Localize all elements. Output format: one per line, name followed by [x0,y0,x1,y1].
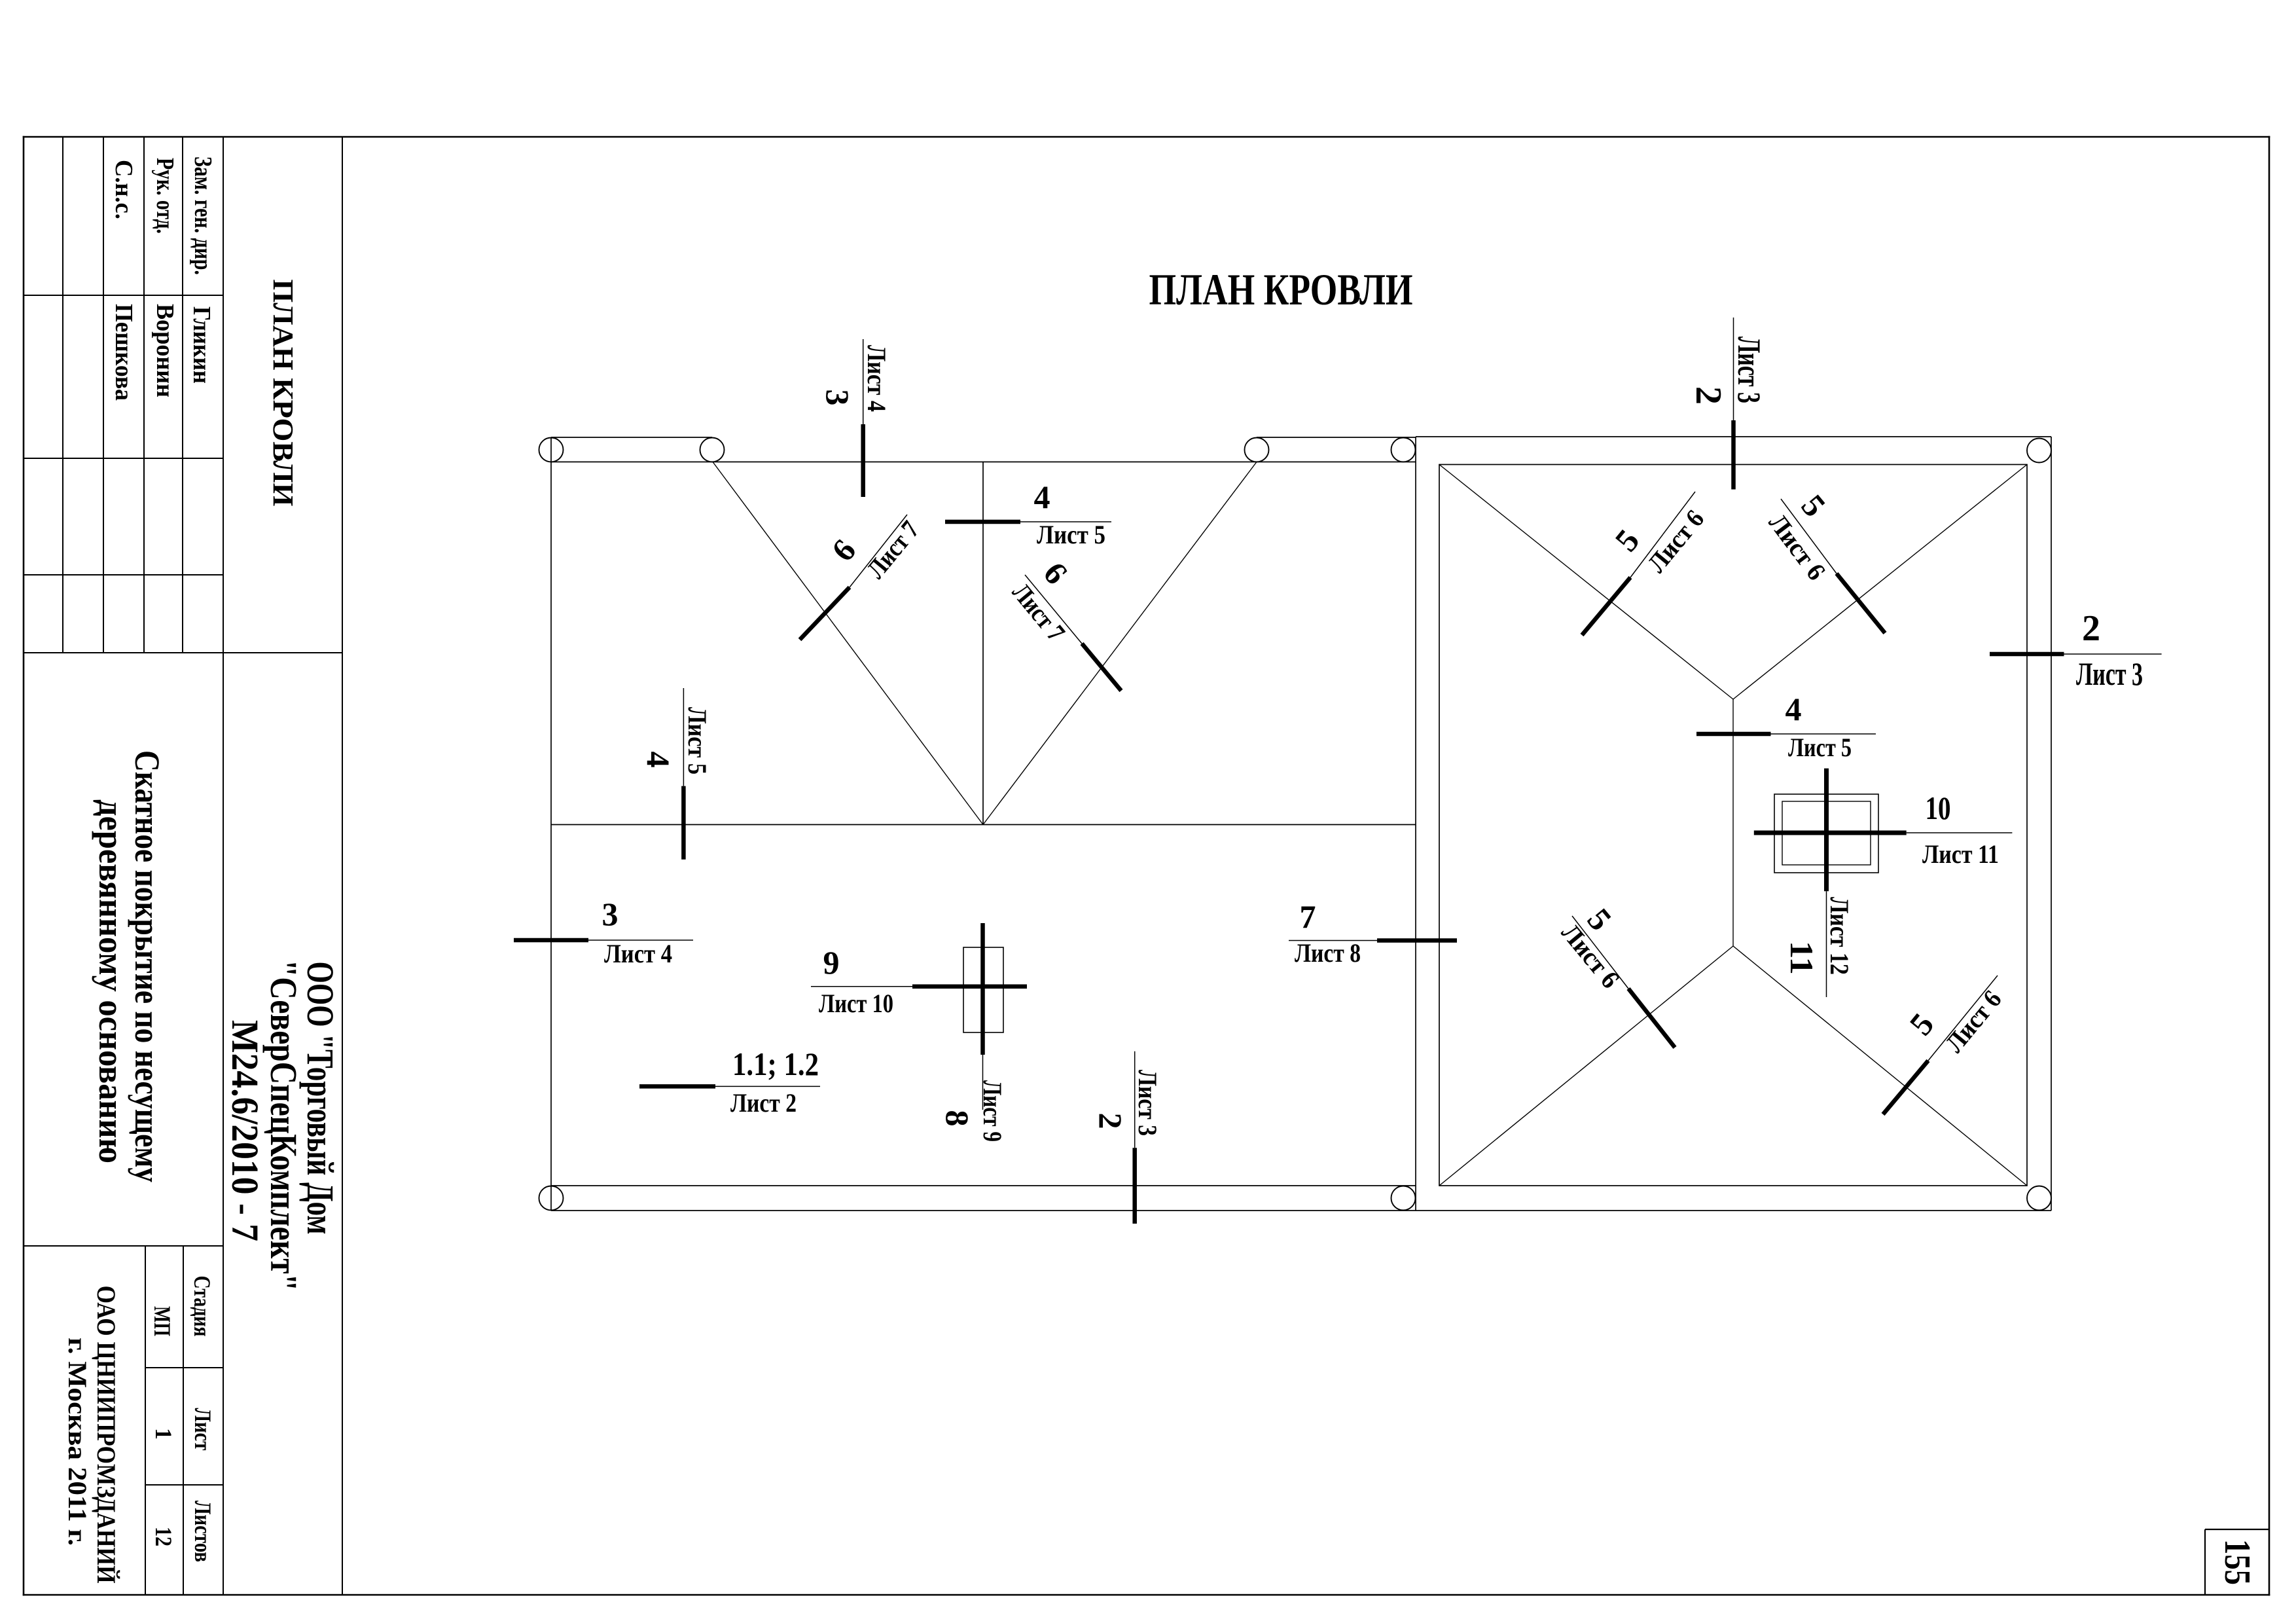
svg-text:МП: МП [149,1306,175,1336]
title block divider x=158 [103,137,104,653]
svg-text:Лист 6: Лист 6 [1763,508,1832,585]
title block row y=2089 [145,1367,223,1368]
log end circle bottom-left [539,1186,564,1211]
top eave tangent left segment [551,437,712,438]
page number box left [2204,1529,2206,1595]
marker 5/Лист6 UR thick stroke [1837,574,1885,633]
frame top border [23,136,2270,138]
hatch crosshair horizontal thick [912,984,1027,989]
svg-text:Лист 11: Лист 11 [1922,839,1999,869]
title block row y=700 [24,458,223,459]
marker 2/Лист3 right thick stroke [1990,652,2064,657]
log end circle top-left corner [539,438,564,462]
marker 5/Лист6 UL thick stroke [1582,577,1630,635]
svg-text:8: 8 [939,1110,976,1127]
long bottom eave line [551,1210,2051,1211]
marker 5/Лист6 LR shelf line [1928,976,1998,1061]
log end circle right top [2027,439,2051,463]
right building outer top edge [1416,436,2051,437]
title block row y=1903 [24,1245,223,1247]
svg-text:ПЛАН КРОВЛИ: ПЛАН КРОВЛИ [267,280,299,507]
left building left edge [550,437,552,1211]
svg-text:155: 155 [2217,1539,2257,1585]
marker 5/Лист6 LL shelf line [1572,916,1628,989]
log end circle top-left inner [700,438,725,462]
left valley line [713,462,983,825]
marker 3/Лист4 top shelf line [863,339,864,424]
svg-text:4: 4 [640,752,677,768]
svg-text:2: 2 [2082,608,2100,649]
marker 7/Лист8 shelf line [1289,940,1377,941]
svg-text:10: 10 [1926,790,1951,826]
svg-text:Лист 8: Лист 8 [1295,938,1361,968]
svg-text:5: 5 [1795,488,1833,524]
svg-text:6: 6 [1037,555,1075,591]
log end circle bottom-right [1391,1186,1416,1211]
svg-text:1.1; 1.2: 1.1; 1.2 [732,1046,819,1082]
svg-text:Лист 3: Лист 3 [1731,337,1768,403]
svg-text:12: 12 [151,1527,177,1546]
title block divider x=96 [62,137,63,653]
left building bottom eave upper line [551,1185,1416,1186]
hip bottom-right [1733,946,2027,1186]
svg-text:ПЛАН КРОВЛИ: ПЛАН КРОВЛИ [1149,264,1413,314]
marker 5/Лист6 LR thick stroke [1883,1061,1928,1114]
title block divider x=222 bottom [145,1246,146,1595]
svg-text:3: 3 [602,896,619,932]
left building mid horizontal ridge [551,824,1416,826]
title block divider x=280 bottom [183,1246,184,1595]
svg-text:7: 7 [1300,898,1316,935]
chimney crosshair horizontal thick [1754,831,1907,835]
chimney inner square [1782,801,1871,865]
svg-text:Лист 2: Лист 2 [730,1088,797,1118]
svg-text:Лист 7: Лист 7 [861,515,925,584]
right valley line [983,462,1257,825]
svg-text:2: 2 [1092,1113,1129,1129]
svg-text:Лист 5: Лист 5 [1037,520,1105,549]
hip bottom-left [1439,946,1733,1186]
svg-text:Лист 10: Лист 10 [819,989,893,1018]
marker 11/Лист12 shelf line [1826,891,1827,997]
marker 2/Лист3 bottom shelf line [1134,1051,1136,1148]
marker 4/Лист5 ridge thick stroke [1696,732,1771,737]
title block divider x=341 [223,137,224,1595]
svg-text:ОАО ЦНИИПРОМЗДАНИЙ: ОАО ЦНИИПРОМЗДАНИЙ [92,1286,121,1584]
marker 4/Лист5 mid shelf line [1020,521,1111,522]
marker 4/Лист5 left thick stroke [681,786,686,860]
svg-text:Лист 6: Лист 6 [1939,985,2007,1058]
svg-text:Лист 5: Лист 5 [1788,733,1852,762]
marker 6/Лист7 left shelf line [850,515,907,587]
svg-text:3: 3 [819,390,856,406]
svg-text:Скатное покрытие по несущему: Скатное покрытие по несущему [128,750,167,1182]
marker 2/Лист3 bottom thick stroke [1132,1148,1137,1224]
svg-text:Лист 6: Лист 6 [1641,504,1710,578]
title block divider x=279 [182,137,183,653]
title block divider x=523 [342,137,343,1595]
marker 1.1;1.2/Лист2 thick stroke [639,1084,715,1089]
svg-text:6: 6 [824,532,863,568]
left building mid vertical ridge [982,462,984,825]
svg-text:Лист 5: Лист 5 [683,707,712,775]
svg-text:Лист 3: Лист 3 [2076,655,2143,692]
hip top-left [1439,465,1733,700]
svg-text:С.н.с.: С.н.с. [110,160,137,219]
svg-text:11: 11 [1784,941,1820,975]
marker 2/Лист3 top shelf line [1733,318,1734,420]
title block divider x=220 [143,137,145,653]
svg-text:Листов: Листов [190,1501,216,1562]
marker 2/Лист3 right shelf line [2064,653,2162,655]
marker 5/Лист6 UL shelf line [1630,492,1695,577]
hatch crosshair vertical thick [980,923,985,1055]
marker 8/Лист9 shelf line [982,1055,984,1110]
svg-text:Гликин: Гликин [188,306,215,384]
marker 2/Лист3 top thick stroke [1731,420,1736,490]
svg-text:Пешкова: Пешкова [110,304,137,401]
svg-text:Зам. ген. дир.: Зам. ген. дир. [189,156,217,275]
marker 5/Лист6 UR shelf line [1781,499,1837,574]
svg-text:Лист 9: Лист 9 [978,1080,1007,1142]
roof hatch rectangle [963,947,1003,1032]
marker 4/Лист5 mid thick stroke [945,520,1020,524]
svg-text:4: 4 [1034,479,1050,515]
hip ridge vertical [1732,699,1734,946]
chimney crosshair vertical thick [1824,769,1829,892]
marker 3/Лист4 left thick stroke [514,938,588,943]
marker 4/Лист5 left shelf line [683,688,684,786]
left building top edge [551,462,1416,463]
svg-text:"СеверСпецКомплект": "СеверСпецКомплект" [262,960,305,1291]
right building outer right edge [2051,437,2052,1211]
marker 3/Лист4 top thick stroke [861,424,865,497]
log end circle top-right corner [1391,438,1416,462]
svg-text:Лист 4: Лист 4 [862,345,891,412]
marker 10/Лист11 shelf line [1907,832,2013,833]
title block row y=878 [24,574,223,575]
svg-text:Стадия: Стадия [189,1276,215,1337]
title block row y=451 [24,295,223,296]
svg-text:г. Москва 2011 г.: г. Москва 2011 г. [63,1338,92,1546]
svg-text:деревянному основанию: деревянному основанию [92,799,131,1163]
marker 1.1;1.2/Лист2 shelf line [715,1085,820,1087]
hip top-right [1733,465,2027,700]
svg-text:5: 5 [1607,522,1646,558]
title block row y=997 [24,652,342,653]
marker 6/Лист7 right thick stroke [1082,644,1121,691]
svg-text:2: 2 [1688,386,1729,405]
svg-text:4: 4 [1785,691,1802,727]
page number box top [2205,1529,2269,1530]
junction wall line [1415,437,1416,1211]
log end circle top-right inner [1245,438,1269,462]
right building inner wall rectangle [1439,465,2027,1186]
marker 7/Лист8 thick stroke [1377,938,1457,943]
svg-text:Лист 4: Лист 4 [604,939,672,968]
frame bottom border [23,1594,2270,1596]
title block row y=2268 [145,1484,223,1486]
svg-text:Рук. отд.: Рук. отд. [151,158,179,234]
marker 6/Лист7 left thick stroke [800,587,850,640]
log end circle right bottom [2027,1186,2051,1211]
svg-text:5: 5 [1902,1006,1941,1042]
svg-text:Воронин: Воронин [151,304,179,397]
svg-text:1: 1 [151,1428,177,1440]
marker 4/Лист5 ridge shelf line [1771,733,1876,735]
svg-text:Лист 7: Лист 7 [1007,577,1071,647]
svg-text:Лист 12: Лист 12 [1825,897,1854,975]
marker 6/Лист7 right shelf line [1025,575,1082,644]
frame left border [23,136,25,1596]
marker 3/Лист4 left shelf line [588,939,693,941]
top eave tangent right segment [1257,437,1416,438]
svg-text:Лист: Лист [190,1408,216,1451]
svg-text:М24.6/2010 - 7: М24.6/2010 - 7 [224,1020,266,1241]
marker 9/Лист10 shelf line [811,986,912,987]
chimney outer square [1774,794,1878,873]
frame right border [2269,136,2270,1596]
svg-text:Лист 3: Лист 3 [1133,1070,1162,1136]
svg-text:9: 9 [823,944,840,981]
marker 5/Лист6 LL thick stroke [1628,989,1675,1048]
